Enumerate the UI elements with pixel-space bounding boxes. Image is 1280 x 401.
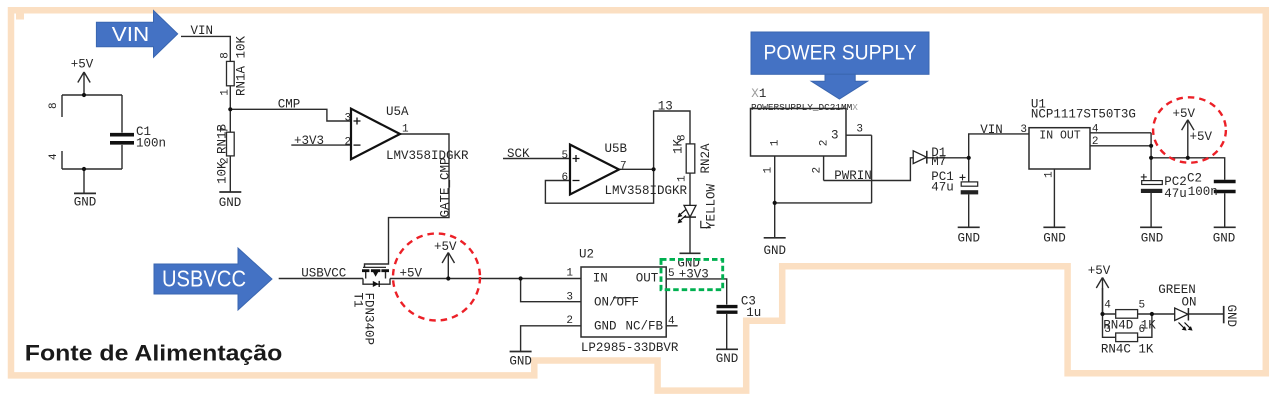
svg-text:3: 3 — [856, 124, 863, 136]
svg-text:RN1A 10K: RN1A 10K — [235, 35, 249, 96]
svg-text:GND: GND — [74, 195, 97, 209]
svg-text:6: 6 — [562, 172, 569, 184]
svg-text:13: 13 — [658, 100, 673, 114]
svg-text:PWRIN: PWRIN — [834, 169, 872, 183]
svg-text:10K RN1B: 10K RN1B — [215, 123, 229, 184]
svg-text:IN OUT: IN OUT — [1039, 130, 1081, 143]
svg-text:1: 1 — [769, 139, 781, 146]
svg-text:5: 5 — [562, 150, 569, 162]
svg-text:GND: GND — [958, 232, 981, 246]
svg-text:U5A: U5A — [386, 105, 409, 119]
svg-text:4: 4 — [1092, 124, 1099, 136]
svg-text:VIN: VIN — [191, 24, 214, 38]
svg-text:USBVCC: USBVCC — [162, 266, 246, 292]
svg-text:7: 7 — [620, 161, 627, 173]
svg-text:1: 1 — [566, 268, 573, 280]
svg-text:POWER SUPPLY: POWER SUPPLY — [764, 41, 917, 65]
svg-text:LMV358IDGKR: LMV358IDGKR — [605, 184, 688, 198]
svg-text:GND: GND — [594, 319, 617, 333]
svg-text:3: 3 — [831, 129, 839, 143]
svg-text:FDN340P: FDN340P — [362, 293, 376, 346]
svg-text:1: 1 — [219, 89, 231, 96]
svg-text:IN: IN — [593, 272, 608, 286]
svg-text:NC/FB: NC/FB — [626, 319, 664, 333]
svg-text:6: 6 — [1139, 324, 1146, 336]
svg-text:GND: GND — [1141, 232, 1164, 246]
svg-text:Fonte de Alimentação: Fonte de Alimentação — [25, 341, 283, 366]
svg-text:USBVCC: USBVCC — [301, 266, 346, 280]
svg-text:X1: X1 — [751, 87, 766, 101]
svg-text:1: 1 — [1044, 171, 1056, 178]
svg-text:ON/OFF: ON/OFF — [594, 295, 639, 309]
svg-text:+3V3: +3V3 — [294, 134, 324, 148]
svg-text:3: 3 — [1104, 324, 1111, 336]
svg-text:8: 8 — [219, 52, 231, 59]
svg-text:RN2A: RN2A — [699, 143, 713, 174]
svg-text:5: 5 — [1139, 300, 1146, 312]
svg-text:100n: 100n — [136, 136, 166, 150]
svg-text:2: 2 — [345, 136, 352, 148]
svg-text:GND: GND — [764, 244, 787, 258]
svg-text:5: 5 — [668, 268, 675, 280]
svg-text:NCP1117ST50T3G: NCP1117ST50T3G — [1031, 107, 1136, 121]
svg-text:+5V: +5V — [434, 240, 457, 254]
svg-text:LP2985-33DBVR: LP2985-33DBVR — [581, 341, 679, 355]
svg-text:GND: GND — [1224, 305, 1238, 328]
svg-text:CMP: CMP — [278, 98, 301, 112]
svg-text:RN4C 1K: RN4C 1K — [1101, 343, 1154, 357]
svg-text:4: 4 — [668, 315, 675, 327]
svg-text:+5V: +5V — [71, 58, 94, 72]
svg-text:+5V: +5V — [1190, 130, 1213, 144]
svg-text:1u: 1u — [746, 306, 761, 320]
svg-text:U5B: U5B — [605, 142, 628, 156]
svg-text:+5V: +5V — [1173, 107, 1196, 121]
svg-text:YELLOW: YELLOW — [704, 183, 718, 229]
svg-text:OUT: OUT — [636, 272, 659, 286]
svg-text:U2: U2 — [579, 248, 594, 262]
svg-text:C2: C2 — [1187, 172, 1202, 186]
svg-text:SCK: SCK — [507, 147, 530, 161]
svg-text:1: 1 — [402, 124, 409, 136]
svg-text:1: 1 — [763, 167, 775, 174]
svg-text:2: 2 — [1092, 136, 1099, 148]
svg-text:GND: GND — [1043, 232, 1066, 246]
svg-text:3: 3 — [1020, 124, 1027, 136]
svg-text:POWERSUPPLY_DC21MMX: POWERSUPPLY_DC21MMX — [751, 102, 858, 113]
svg-text:LMV358IDGKR: LMV358IDGKR — [386, 149, 469, 163]
svg-text:4: 4 — [1104, 300, 1111, 312]
svg-text:100n: 100n — [1188, 185, 1218, 199]
svg-text:GND: GND — [509, 354, 532, 368]
svg-text:47u: 47u — [931, 181, 954, 195]
svg-text:GATE_CMP: GATE_CMP — [439, 157, 453, 217]
svg-text:GND: GND — [219, 196, 242, 210]
svg-text:3: 3 — [345, 112, 352, 124]
svg-text:2: 2 — [812, 167, 824, 174]
svg-text:GND: GND — [716, 352, 739, 366]
svg-text:8: 8 — [48, 102, 60, 109]
svg-text:2: 2 — [818, 140, 830, 147]
svg-text:ON: ON — [1182, 296, 1197, 310]
svg-text:1: 1 — [677, 175, 689, 182]
svg-text:GND: GND — [1213, 232, 1236, 246]
svg-text:M7: M7 — [931, 155, 946, 169]
svg-text:VIN: VIN — [980, 123, 1003, 137]
svg-text:2: 2 — [566, 315, 573, 327]
svg-text:RN4D 1K: RN4D 1K — [1103, 319, 1156, 333]
svg-text:4: 4 — [48, 153, 60, 160]
svg-text:+3V3: +3V3 — [679, 268, 709, 282]
svg-text:VIN: VIN — [112, 24, 150, 46]
svg-text:3: 3 — [566, 292, 573, 304]
svg-text:47u: 47u — [1164, 187, 1187, 201]
svg-text:1K: 1K — [672, 138, 686, 154]
svg-text:+5V: +5V — [1088, 264, 1111, 278]
svg-text:+5V: +5V — [400, 266, 423, 280]
